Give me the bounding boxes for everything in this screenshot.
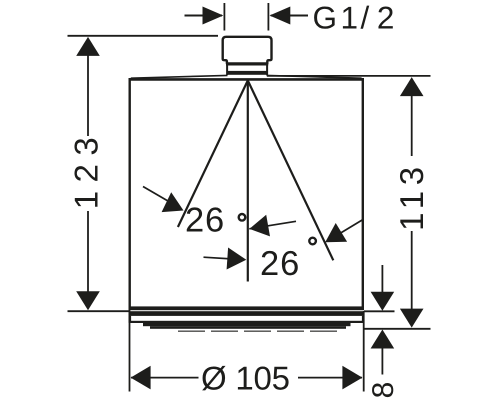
right 26 degree spray line — [248, 81, 333, 261]
degree symbol upper — [239, 214, 246, 221]
spray disc lower band — [150, 326, 346, 329]
G1/2 right arrow head — [270, 7, 291, 25]
degree symbol lower — [309, 238, 316, 245]
dim 123 top extension line — [68, 35, 219, 37]
collar left edge — [226, 63, 228, 75]
G1/2 left extension line — [223, 3, 225, 31]
collar right edge — [266, 63, 268, 75]
svg-text:8: 8 — [367, 382, 400, 399]
connector nut G1/2 outline — [223, 37, 272, 64]
G1/2 right leader — [271, 15, 308, 17]
svg-text:G1/2: G1/2 — [313, 0, 395, 36]
svg-text:113: 113 — [393, 167, 430, 231]
dim 105 line left segment — [131, 377, 199, 379]
svg-text:26: 26 — [260, 245, 300, 283]
angle arrow B head — [249, 215, 270, 237]
dim 105 left arrow — [131, 366, 151, 390]
left 26 degree spray line — [178, 81, 248, 228]
dim 8 lower arrow (pointing up) — [371, 330, 395, 349]
dim 8 top reference line — [364, 310, 395, 312]
collar dark base band — [227, 71, 269, 75]
dim 113 and 8 bottom reference line — [363, 328, 431, 330]
dim 8 upper arrow (pointing down) — [371, 292, 395, 311]
shower head body top front edge — [129, 78, 365, 81]
dim 105 line right segment — [298, 377, 362, 379]
dim 105 right extension line — [363, 311, 365, 392]
shower head body right edge — [362, 78, 364, 307]
body bottom rim band B — [129, 311, 365, 316]
G1/2 right extension line — [267, 3, 269, 31]
angle arrow B leader (to center line, upper) — [249, 221, 296, 229]
dim 8 lower arrow tail — [381, 348, 383, 375]
angle arrow A head — [162, 192, 184, 212]
face plate left wrap stub — [129, 316, 132, 323]
G1/2 left leader — [185, 15, 223, 17]
angle arrow C leader (to center line, lower) — [204, 257, 244, 259]
body bottom rim band A — [129, 306, 365, 310]
body top left bevel line — [131, 75, 228, 78]
dim 113 top arrow — [400, 77, 424, 96]
spray nozzle dotted line — [178, 330, 343, 332]
body top right bevel line — [267, 75, 362, 78]
dim 113 line lower segment — [411, 231, 413, 309]
dim 113 top extension line — [267, 75, 431, 77]
dim 123 top arrow — [76, 37, 100, 56]
dim 8 upper arrow tail — [381, 265, 383, 293]
angle arrow D head — [325, 223, 347, 242]
dim 113 line upper segment — [411, 96, 413, 157]
dim 105 left extension line — [129, 307, 131, 392]
G1/2 left arrow head — [203, 7, 224, 25]
angle arrow C head — [227, 248, 247, 270]
dim 123 line lower segment — [87, 211, 89, 292]
face plate right wrap stub — [362, 316, 365, 323]
face plate edge line — [131, 321, 364, 323]
svg-text:123: 123 — [68, 137, 105, 209]
svg-text:Ø 105: Ø 105 — [201, 360, 290, 397]
dim 123 line upper segment — [87, 55, 89, 136]
dim 113 bottom arrow — [400, 309, 424, 328]
angle arrow A leader (to left spray line) — [143, 187, 180, 209]
dim 123 bottom extension line — [68, 310, 130, 312]
spray disc upper band — [143, 321, 351, 326]
svg-text:26: 26 — [185, 201, 225, 239]
shower head body left edge — [128, 78, 130, 307]
center vertical spray axis line — [247, 81, 249, 282]
collar top line — [226, 63, 268, 65]
dim 105 right arrow — [342, 366, 362, 390]
angle arrow D leader (to right spray line) — [328, 220, 363, 241]
dim 123 bottom arrow — [76, 291, 100, 310]
